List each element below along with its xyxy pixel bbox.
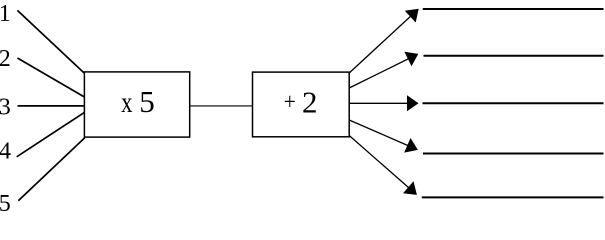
output arrow 3 shaft <box>349 102 411 104</box>
answer line 2 <box>424 55 604 57</box>
output arrow 3 head <box>407 95 419 111</box>
output arrow 2 head <box>404 52 418 66</box>
answer line 5 <box>422 196 604 198</box>
wire from 3 to x5 box <box>18 105 85 107</box>
answer line 1 <box>423 8 604 10</box>
wire from 1 to x5 box <box>17 10 84 73</box>
box x5 <box>84 72 189 137</box>
svg-text:x: x <box>121 86 132 119</box>
output arrow 4 head <box>404 138 418 153</box>
svg-text:5: 5 <box>0 191 11 216</box>
output arrow 4 shaft <box>349 120 411 147</box>
svg-text:2: 2 <box>302 84 318 119</box>
wire from 2 to x5 box <box>17 58 84 97</box>
box +2 <box>253 72 350 137</box>
output arrow 1 shaft <box>349 14 413 74</box>
svg-text:1: 1 <box>0 1 11 27</box>
answer line 3 <box>423 102 604 104</box>
output arrow 1 head <box>405 9 419 23</box>
output arrow 5 head <box>403 181 417 195</box>
answer line 4 <box>423 153 604 155</box>
wire from 5 to x5 box <box>18 138 85 201</box>
output arrow 5 shaft <box>349 136 411 191</box>
wire from 4 to x5 box <box>17 112 85 156</box>
svg-text:3: 3 <box>0 95 11 121</box>
output arrow 2 shaft <box>349 57 412 88</box>
connector wire between boxes <box>190 105 253 107</box>
svg-text:2: 2 <box>0 46 11 72</box>
svg-text:5: 5 <box>139 84 155 119</box>
svg-text:+: + <box>284 89 296 115</box>
svg-text:4: 4 <box>0 139 11 165</box>
